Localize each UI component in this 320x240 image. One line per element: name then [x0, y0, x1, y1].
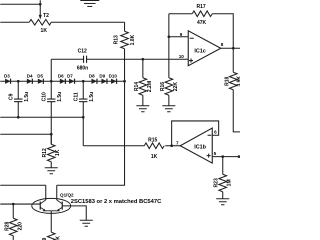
wire feedback loop IC1b — [172, 121, 219, 146]
junction node C9 bottom — [17, 116, 20, 119]
svg-text:D6: D6 — [58, 73, 64, 78]
svg-text:D7: D7 — [67, 73, 73, 78]
junction node diode rail end — [123, 80, 126, 83]
ground of R14 — [136, 106, 149, 112]
svg-text:2.2M: 2.2M — [147, 81, 153, 92]
svg-text:1.5u: 1.5u — [57, 92, 63, 102]
capacitor C9 — [14, 81, 22, 117]
transistor Q2 emitter — [58, 207, 62, 210]
resistor R23 — [219, 157, 227, 199]
svg-text:R18: R18 — [225, 76, 231, 85]
diode D4 — [27, 79, 32, 84]
wire pin 5 stub to edge — [212, 156, 240, 158]
svg-text:R17: R17 — [196, 4, 205, 10]
wire rail y22 right lead to R13 — [51, 21, 124, 23]
svg-text:R16: R16 — [160, 82, 166, 91]
transistor Q2 collector — [57, 200, 63, 204]
svg-text:3.9K: 3.9K — [55, 236, 61, 240]
svg-text:1K: 1K — [41, 28, 48, 34]
wiper arrowhead of T2 — [39, 15, 42, 20]
diode D9 — [101, 79, 107, 84]
wire rail y59 right segment to pin10 — [87, 58, 189, 60]
svg-text:D3: D3 — [4, 73, 10, 78]
wire top-left horizontal to wiper — [0, 3, 40, 5]
transistor Q1 collector — [40, 200, 46, 204]
transistor Q1/Q2 dual envelope — [32, 198, 71, 213]
wire left collector riser — [45, 185, 47, 200]
resistor R13 — [121, 22, 129, 59]
svg-text:IC1c: IC1c — [194, 49, 205, 55]
svg-text:22K: 22K — [173, 82, 179, 92]
plus sign IC1c — [189, 59, 193, 63]
emitter arrow Q2 — [57, 209, 60, 211]
svg-text:D10: D10 — [109, 73, 118, 78]
svg-text:R28: R28 — [5, 221, 11, 230]
svg-text:9: 9 — [180, 32, 183, 37]
ground of R12 — [45, 168, 58, 174]
junction node pin9/R16/R17 — [168, 35, 171, 38]
diode D8 — [91, 79, 97, 84]
diode D3 — [5, 79, 11, 84]
svg-text:3.9K: 3.9K — [237, 76, 240, 87]
wire collector rail left — [0, 184, 46, 186]
svg-text:R12: R12 — [42, 148, 48, 157]
wire common emitter inner — [43, 210, 60, 212]
svg-text:D4: D4 — [27, 73, 33, 78]
svg-text:8: 8 — [221, 42, 224, 47]
svg-text:IC1b: IC1b — [194, 145, 206, 151]
ground of R23 — [216, 199, 229, 205]
wire base rail left — [0, 203, 40, 205]
svg-text:C9: C9 — [9, 93, 15, 100]
junction node pin5 edge — [238, 155, 241, 158]
svg-text:R14: R14 — [134, 82, 140, 91]
wire R13 bottom to diode rail — [124, 59, 126, 81]
svg-text:220: 220 — [18, 222, 24, 231]
wire rail y117 — [0, 116, 83, 118]
wire right collector riser — [56, 185, 58, 200]
wire rail y22 left lead of T2 — [0, 21, 29, 23]
svg-text:T2: T2 — [43, 13, 49, 19]
svg-text:2SC1583 or 2 x matched BC547C: 2SC1583 or 2 x matched BC547C — [71, 199, 162, 205]
resistor R29 (clipped) — [47, 232, 55, 240]
junction node C9 tap — [17, 80, 20, 83]
transistor Q1 emitter — [40, 207, 44, 210]
wire rail y134 — [0, 133, 51, 135]
junction node output/R17/R18 — [232, 47, 235, 50]
junction node R28 tap — [12, 203, 15, 206]
wire riser from diode node down to collector rail — [57, 81, 125, 185]
op-amp IC1c — [188, 31, 221, 66]
wire output pin 8 — [221, 47, 241, 49]
transistor Q2 base bar — [61, 202, 63, 210]
wire wiper vertical from top edge — [39, 0, 41, 16]
svg-text:1K: 1K — [151, 154, 158, 160]
svg-text:D9: D9 — [99, 73, 105, 78]
svg-text:1.5u: 1.5u — [24, 92, 30, 102]
junction node rail59/R14 — [142, 58, 145, 61]
svg-text:D8: D8 — [89, 73, 95, 78]
emitter arrow Q1 — [43, 209, 46, 211]
svg-text:R13: R13 — [113, 35, 119, 44]
potentiometer T2 body — [29, 19, 51, 25]
junction node C10/rail tap — [50, 80, 53, 83]
wire pin 9 stub — [169, 36, 188, 38]
junction node pin7 feedback — [170, 144, 173, 147]
svg-text:10: 10 — [179, 54, 185, 59]
svg-text:6: 6 — [214, 130, 217, 135]
minus sign IC1b — [208, 134, 212, 136]
ground top (clipped) — [80, 0, 99, 6]
wire Q2 base to ground — [62, 206, 86, 220]
wire inverting net vertical x168.6 — [168, 14, 170, 78]
junction node R12 tap — [50, 133, 53, 136]
resistor R28 — [9, 204, 17, 240]
ground of Q2 base — [80, 220, 93, 226]
wire C11 corner to R15 — [83, 145, 144, 147]
svg-text:1K: 1K — [55, 149, 61, 156]
svg-text:R23: R23 — [214, 178, 220, 187]
plus sign IC1b — [207, 154, 211, 158]
diode rail y81 — [0, 80, 124, 82]
svg-text:Q1/Q2: Q1/Q2 — [60, 193, 74, 198]
resistor R18 — [229, 48, 240, 132]
svg-text:680n: 680n — [77, 65, 88, 71]
svg-text:7: 7 — [176, 140, 179, 145]
capacitor C11 — [79, 81, 87, 146]
svg-text:5: 5 — [214, 151, 217, 156]
wire rail y59 left segment to C12 — [51, 58, 83, 60]
junction node C11 bottom — [82, 116, 85, 119]
diode D6 — [60, 79, 66, 84]
svg-text:C12: C12 — [78, 48, 87, 54]
resistor R12 — [47, 134, 55, 168]
svg-text:D5: D5 — [37, 73, 43, 78]
svg-text:C10: C10 — [42, 92, 48, 101]
svg-text:1.5u: 1.5u — [89, 92, 95, 102]
junction node C11 tap — [82, 80, 85, 83]
svg-text:47K: 47K — [197, 20, 207, 26]
resistor R15 — [144, 143, 180, 149]
svg-text:1M: 1M — [227, 179, 233, 186]
diode D7 — [69, 79, 75, 84]
diode D5 — [38, 79, 44, 84]
capacitor C10 — [47, 99, 55, 144]
resistor R17 — [169, 11, 233, 48]
svg-text:C11: C11 — [74, 92, 80, 101]
ground of R16 — [162, 106, 175, 112]
capacitor C12 — [84, 56, 87, 63]
junction node pin5/R23 — [221, 155, 224, 158]
junction node at wiper tap — [39, 3, 42, 6]
diode D10 — [111, 79, 117, 84]
svg-text:R15: R15 — [148, 138, 157, 144]
transistor Q1 base bar — [39, 202, 41, 210]
svg-text:1.8K: 1.8K — [130, 34, 136, 45]
resistor R14 — [139, 59, 147, 106]
wire emitter lead — [50, 211, 52, 232]
minus sign IC1c — [190, 37, 194, 39]
op-amp IC1b — [180, 128, 212, 163]
wire corner x51 down from rail to C10 — [50, 59, 52, 99]
resistor R16 — [165, 78, 173, 106]
